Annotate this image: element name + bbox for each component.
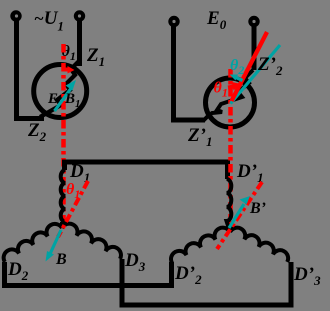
wire: D2 end to bottom bus 1 and up to D'2 [5, 262, 172, 286]
winding D'3 (right arm scallops) [230, 228, 288, 262]
rotor circle U1 (left machine rotor) [34, 65, 87, 118]
wire: top link between D1 and D'1 windings [65, 162, 228, 179]
node: right stator Y-junction [228, 225, 232, 232]
node: left stator Y-junction [60, 222, 64, 228]
axis: red solid rotated rotor axis [232, 32, 268, 101]
rotor winding Z1-Z2 (zigzag) [40, 61, 79, 117]
wire: right circuit left lead (terminal 3 down and right to Z'1 end) [174, 22, 206, 121]
wire: left circuit left lead (terminal 1 down and right to Z2 end) [17, 16, 45, 119]
winding D2 (left arm scallops) [4, 224, 62, 262]
svg-text:E: E [47, 91, 58, 107]
axis: red dash-dot diagonal (right flux axis) [217, 182, 262, 249]
winding D'2 (left arm scallops) [171, 228, 230, 263]
angle arrow theta2 (cyan) [236, 78, 243, 81]
coil D'1 (right, loops bulge right) [227, 179, 232, 232]
coil D1 (left, loops bulge left) [61, 170, 66, 228]
rotor winding Z'1-Z'2 (zigzag) [203, 70, 253, 121]
axis: red dash-dot diagonal (left flux axis) [58, 181, 88, 237]
angle arrow theta1 (red, right rotor) [228, 87, 234, 88]
wire: left circuit right lead (terminal 2 down to rotor winding Z1 end) [77, 16, 82, 66]
terminal 2 [74, 10, 85, 21]
flux vector B' (cyan arrow, right stator) [229, 204, 244, 228]
flux vector B1 (cyan arrow in left rotor) [55, 87, 73, 111]
winding D3 (right arm scallops) [62, 224, 121, 259]
flux vector B (cyan arrow, left stator) [50, 230, 61, 254]
wire: right circuit right lead (terminal 4 down to rotor winding Z'2 end) [252, 22, 257, 71]
rotor circle U2 (right machine rotor) [206, 78, 255, 127]
wire: D3 end down to bottom bus 2 across to D'3 [122, 259, 291, 305]
svg-text:B’: B’ [249, 200, 266, 217]
angle arrow theta1 (red, left rotor) [62, 68, 68, 72]
svg-text:B: B [55, 251, 67, 268]
terminal 4 [248, 16, 259, 27]
axis: red dash-dot vertical line (left machine) [61, 44, 66, 226]
axis: cyan rotated axis (theta2) [231, 45, 281, 104]
terminal 3 [168, 16, 179, 27]
axis: red dash-dot vertical line (right machine) [228, 69, 233, 224]
terminal 1 [10, 10, 21, 21]
